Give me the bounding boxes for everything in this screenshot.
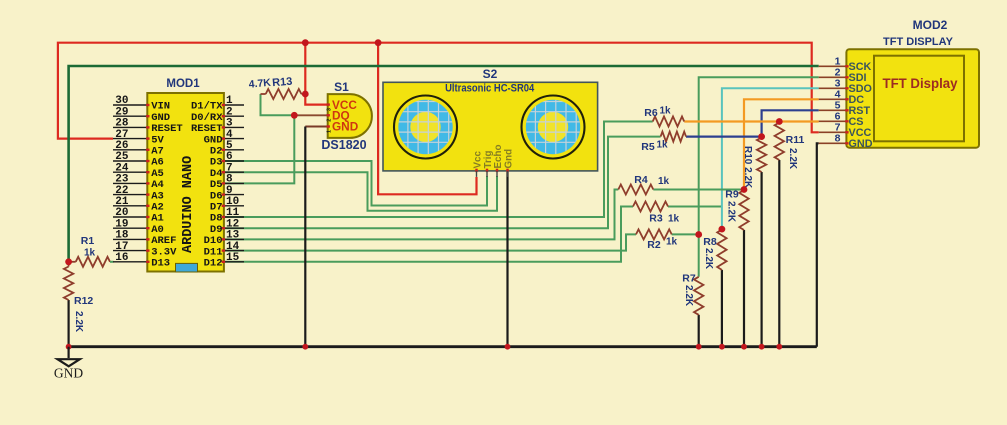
wire red branch to S1 VCC pin bbox=[305, 43, 327, 105]
svg-text:11: 11 bbox=[226, 207, 240, 219]
junction DC / R4 / R9 bbox=[741, 186, 748, 193]
svg-text:A6: A6 bbox=[151, 157, 164, 169]
wire SCK net (dark green) from R1 node across top to TFT pin1 bbox=[69, 66, 819, 262]
svg-text:R8: R8 bbox=[703, 236, 717, 248]
svg-text:A3: A3 bbox=[151, 190, 164, 202]
svg-text:5V: 5V bbox=[151, 134, 164, 146]
junction DQ / D5 wire bbox=[291, 112, 298, 119]
wire 5V rail (red) from Arduino 5V pin across top to TFT VCC bbox=[58, 43, 819, 139]
wire S1 GND stub (brown) bbox=[305, 126, 327, 128]
svg-text:D12: D12 bbox=[204, 258, 223, 270]
svg-text:GND: GND bbox=[204, 134, 223, 146]
svg-text:R7: R7 bbox=[682, 273, 696, 285]
svg-text:R5: R5 bbox=[641, 141, 655, 153]
svg-text:8: 8 bbox=[835, 133, 841, 145]
svg-text:R13: R13 bbox=[272, 76, 293, 90]
svg-text:D7: D7 bbox=[210, 202, 223, 214]
wire S1 GND pin down to bus bbox=[304, 127, 306, 347]
svg-text:1k: 1k bbox=[84, 248, 96, 259]
svg-text:A0: A0 bbox=[151, 224, 164, 236]
svg-text:S2: S2 bbox=[483, 67, 498, 81]
svg-text:R12: R12 bbox=[74, 295, 93, 307]
resistor R13 4.7K bbox=[266, 89, 302, 99]
svg-text:14: 14 bbox=[226, 241, 240, 253]
wire R10 bottom to bus bbox=[760, 172, 762, 347]
svg-text:MOD2: MOD2 bbox=[913, 18, 948, 32]
svg-text:3: 3 bbox=[226, 118, 233, 130]
wire R13 left lead bbox=[261, 93, 266, 95]
svg-text:R1: R1 bbox=[81, 235, 95, 247]
wire R9 bottom to bus bbox=[743, 230, 745, 347]
svg-text:D3: D3 bbox=[210, 157, 223, 169]
wire R7 bottom to bus bbox=[698, 315, 700, 347]
junction 5V rail / S2 branch bbox=[375, 39, 382, 46]
svg-text:Echo: Echo bbox=[493, 145, 504, 169]
wire RST net (blue) from R5 to TFT pin5 bbox=[686, 110, 819, 136]
wire R8 bottom to bus bbox=[721, 270, 723, 347]
junction R13 right / 5V bbox=[302, 91, 309, 98]
svg-text:TFT Display: TFT Display bbox=[883, 76, 958, 91]
junction S2 Gnd / bus bbox=[505, 344, 511, 350]
svg-text:D13: D13 bbox=[151, 258, 170, 270]
svg-text:18: 18 bbox=[115, 230, 129, 242]
svg-text:A4: A4 bbox=[151, 179, 164, 191]
svg-text:6: 6 bbox=[226, 151, 233, 163]
wire Arduino D9 pin 12 to R5 (RST net) bbox=[224, 137, 661, 229]
svg-text:GND: GND bbox=[54, 366, 83, 381]
wire R11 bottom to bus bbox=[778, 160, 780, 347]
junction S1 GND / bus bbox=[302, 344, 308, 350]
sensor S2 Ultrasonic HC-SR04 bbox=[383, 82, 598, 177]
svg-text:25: 25 bbox=[115, 151, 129, 163]
junction RST / R10 bbox=[758, 133, 765, 140]
svg-text:Gnd: Gnd bbox=[504, 149, 515, 169]
svg-text:D10: D10 bbox=[204, 235, 223, 247]
svg-text:VIN: VIN bbox=[151, 101, 170, 113]
junction R9 / bus bbox=[741, 344, 747, 350]
svg-text:16: 16 bbox=[115, 252, 128, 264]
wire DS1820 DQ net (green) down to DQ line bbox=[261, 94, 295, 115]
svg-text:RESET: RESET bbox=[191, 123, 223, 135]
svg-text:D2: D2 bbox=[210, 146, 223, 158]
svg-text:24: 24 bbox=[115, 162, 129, 174]
svg-text:D6: D6 bbox=[210, 190, 223, 202]
svg-text:2.2K: 2.2K bbox=[73, 311, 84, 333]
svg-text:2.2K: 2.2K bbox=[703, 248, 714, 270]
svg-text:1k: 1k bbox=[666, 237, 678, 248]
junction SDI / R2 / R7 bbox=[695, 231, 702, 238]
wire DQ stub (brown) into S1 bbox=[294, 114, 327, 116]
resistor R5 1k bbox=[661, 132, 686, 142]
svg-text:28: 28 bbox=[115, 118, 129, 130]
svg-text:1k: 1k bbox=[658, 176, 670, 187]
svg-text:Vcc: Vcc bbox=[473, 151, 484, 169]
wire CS net (orange) from R6 to TFT pin6 bbox=[684, 120, 819, 122]
svg-text:26: 26 bbox=[115, 140, 128, 152]
svg-text:D4: D4 bbox=[210, 168, 223, 180]
wire S2 Gnd pin down to bus bbox=[506, 171, 508, 347]
junction CS / R11 bbox=[776, 118, 783, 125]
resistor R11 2.2K bbox=[775, 123, 784, 161]
svg-text:15: 15 bbox=[226, 252, 240, 264]
svg-text:2.2K: 2.2K bbox=[787, 148, 798, 170]
wire Arduino D8 pin 11 to R6 (CS net) bbox=[224, 122, 653, 218]
wire DC net (orange) from R4/R9 junction up to TFT pin4 bbox=[744, 99, 819, 189]
wire red branch to S2 Vcc pin bbox=[378, 43, 476, 195]
wire Arduino D3 pin 6 to S2 Trig bbox=[224, 161, 487, 206]
wire DQ to Arduino D5 pin 8 bbox=[224, 115, 294, 183]
svg-text:AREF: AREF bbox=[151, 235, 176, 247]
svg-text:10: 10 bbox=[226, 196, 239, 208]
svg-text:8: 8 bbox=[226, 174, 233, 186]
svg-text:A5: A5 bbox=[151, 168, 164, 180]
svg-text:A2: A2 bbox=[151, 202, 164, 214]
svg-text:D5: D5 bbox=[210, 179, 223, 191]
wire R1 right lead to D13 pin bbox=[110, 261, 114, 263]
junction R11 / bus bbox=[776, 344, 782, 350]
wire R4 right lead to DC junction bbox=[653, 189, 744, 191]
sensor S1 DS1820 bbox=[327, 94, 372, 138]
resistor R9 2.2K bbox=[739, 190, 748, 230]
svg-text:2.2K: 2.2K bbox=[683, 285, 694, 307]
resistor R3 1k bbox=[633, 202, 668, 212]
wire Arduino D10 pin 13 to R4 (DC net) bbox=[224, 190, 618, 240]
svg-text:9: 9 bbox=[226, 185, 233, 197]
wire Arduino D11 pin 14 to R2 (SDI net) bbox=[224, 234, 636, 250]
svg-text:ARDUINO NANO: ARDUINO NANO bbox=[181, 156, 196, 253]
wire Arduino D4 pin 7 to S2 Echo bbox=[224, 172, 497, 211]
svg-text:7: 7 bbox=[226, 162, 233, 174]
svg-text:Ultrasonic HC-SR04: Ultrasonic HC-SR04 bbox=[445, 82, 534, 94]
svg-text:12: 12 bbox=[226, 218, 239, 230]
svg-text:20: 20 bbox=[115, 207, 128, 219]
svg-text:D9: D9 bbox=[210, 224, 223, 236]
junction R7 / bus bbox=[696, 344, 702, 350]
wire Arduino D12 pin 15 to R3 (SDO net) bbox=[224, 207, 633, 262]
svg-text:D1/TX: D1/TX bbox=[191, 101, 223, 113]
resistor R7 2.2K bbox=[694, 277, 703, 315]
svg-text:19: 19 bbox=[115, 218, 128, 230]
svg-text:R6: R6 bbox=[644, 107, 658, 119]
junction R12 / GND bus bbox=[66, 344, 72, 350]
svg-text:5: 5 bbox=[226, 140, 233, 152]
svg-text:30: 30 bbox=[115, 95, 128, 107]
svg-text:1k: 1k bbox=[668, 214, 680, 225]
wire GND bus (black) along bottom bbox=[69, 345, 817, 348]
svg-text:13: 13 bbox=[226, 230, 240, 242]
junction R10 / bus bbox=[759, 344, 765, 350]
svg-text:D11: D11 bbox=[204, 246, 223, 258]
svg-text:MOD1: MOD1 bbox=[166, 78, 200, 90]
wire TFT GND pin down to bus bbox=[817, 143, 819, 346]
resistor R8 2.2K bbox=[717, 230, 726, 270]
svg-text:3.3V: 3.3V bbox=[151, 246, 177, 258]
svg-text:21: 21 bbox=[115, 196, 129, 208]
resistor R12 2.2K bbox=[64, 267, 73, 301]
svg-text:1: 1 bbox=[226, 95, 233, 107]
svg-text:GND: GND bbox=[332, 120, 359, 134]
svg-text:27: 27 bbox=[115, 129, 128, 141]
svg-text:R4: R4 bbox=[634, 174, 648, 186]
svg-text:4.7K: 4.7K bbox=[248, 77, 272, 91]
wire R1 left lead bbox=[69, 261, 76, 263]
svg-text:3: 3 bbox=[327, 108, 333, 111]
svg-text:R11: R11 bbox=[786, 134, 805, 146]
module MOD1 Arduino Nano bbox=[113, 93, 244, 272]
junction R1 / R12 / SCK bbox=[65, 258, 72, 265]
resistor R6 1k bbox=[653, 117, 685, 127]
svg-text:1: 1 bbox=[327, 130, 333, 133]
wire R12 top lead bbox=[68, 262, 70, 267]
svg-text:R3: R3 bbox=[649, 213, 663, 225]
svg-text:17: 17 bbox=[115, 241, 128, 253]
wire R2 right to SDI junction bbox=[672, 233, 699, 235]
svg-text:GND: GND bbox=[849, 138, 873, 150]
svg-text:RESET: RESET bbox=[151, 123, 183, 135]
resistor R1 1k bbox=[76, 257, 110, 267]
svg-text:D0/RX: D0/RX bbox=[191, 112, 223, 124]
wire SDO net (teal) from R8 junction up to TFT pin3 bbox=[722, 88, 819, 229]
svg-text:1k: 1k bbox=[657, 140, 669, 151]
svg-text:4: 4 bbox=[226, 129, 233, 141]
svg-text:R2: R2 bbox=[647, 239, 661, 251]
svg-text:GND: GND bbox=[151, 112, 170, 124]
svg-text:22: 22 bbox=[115, 185, 128, 197]
resistor R2 1k bbox=[636, 229, 672, 239]
svg-text:A1: A1 bbox=[151, 213, 164, 225]
svg-text:R10 2.2K: R10 2.2K bbox=[742, 146, 753, 189]
module MOD2 TFT display bbox=[819, 49, 979, 150]
svg-text:S1: S1 bbox=[334, 80, 349, 94]
wire R3 right to SDO teal vertical bbox=[668, 206, 722, 208]
junction SDO / R8 bbox=[719, 226, 726, 233]
wire SDI net (green) junction up to TFT pin2, down to R7 bbox=[699, 77, 819, 276]
junction R8 / bus bbox=[719, 344, 725, 350]
svg-text:23: 23 bbox=[115, 174, 129, 186]
svg-text:DS1820: DS1820 bbox=[321, 138, 366, 152]
resistor R4 1k bbox=[618, 185, 653, 195]
wire R12 bottom to bus bbox=[67, 300, 69, 347]
svg-text:D8: D8 bbox=[210, 213, 223, 225]
svg-text:1k: 1k bbox=[660, 106, 672, 117]
svg-text:TFT DISPLAY: TFT DISPLAY bbox=[883, 36, 954, 48]
svg-text:R9: R9 bbox=[725, 189, 739, 201]
junction 5V rail / S1 branch bbox=[302, 39, 309, 46]
svg-text:2.2K: 2.2K bbox=[726, 201, 737, 223]
resistor R10 2.2K bbox=[757, 138, 766, 173]
svg-text:2: 2 bbox=[327, 119, 333, 122]
svg-text:A7: A7 bbox=[151, 146, 164, 158]
svg-text:29: 29 bbox=[115, 106, 128, 118]
wire R13 right lead bbox=[301, 93, 305, 95]
ground symbol bbox=[54, 347, 83, 381]
svg-text:2: 2 bbox=[226, 106, 233, 118]
